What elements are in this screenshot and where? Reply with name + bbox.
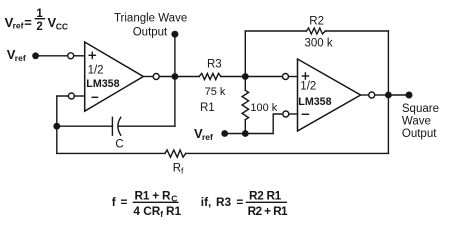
pin circle: U1B non-inverting input — [283, 74, 289, 80]
wire top rail left segment — [245, 30, 306, 32]
wire right feedback vertical — [387, 31, 389, 153]
node: triangle wave output terminal dot — [171, 31, 178, 38]
wire node B down to R1 — [244, 77, 246, 91]
resistor R1 100k (vertical) — [242, 90, 249, 119]
wire up to triangle wave terminal — [174, 34, 176, 76]
pin circle: U1A inverting input — [68, 93, 74, 99]
node: U1B output junction — [385, 92, 392, 99]
label 100 k — [250, 102, 277, 114]
label Square Wave Output — [402, 103, 439, 140]
wire Vref dot to + input circle — [36, 55, 68, 57]
svg-text:2: 2 — [36, 21, 42, 33]
resistor R3 75k — [199, 73, 221, 79]
node: U1A output junction — [172, 73, 179, 80]
wire circle to op-amp — [74, 55, 85, 57]
wire U1A output apex to circle — [143, 76, 153, 78]
node: square wave output terminal dot — [406, 92, 413, 99]
svg-text:R1 + R: R1 + R — [135, 188, 172, 202]
svg-text:LM358: LM358 — [86, 78, 119, 90]
wire to square wave terminal — [388, 94, 409, 96]
svg-text:Output: Output — [133, 27, 168, 39]
svg-text:1/2: 1/2 — [88, 64, 104, 76]
wire Vref dot to junction — [225, 133, 246, 135]
wire from inverting circle to op-amp — [74, 95, 84, 97]
capacitor C — [111, 117, 113, 135]
svg-text:=: = — [121, 195, 128, 209]
svg-text:R1: R1 — [166, 204, 182, 218]
label C — [115, 139, 123, 151]
resistor R2 300k — [306, 28, 325, 34]
fraction bar of 1/2 — [35, 18, 44, 20]
wire circle to U1B — [289, 76, 298, 78]
U1A plus sign — [89, 54, 95, 56]
label R1 — [200, 102, 215, 114]
svg-text:CC: CC — [56, 21, 68, 31]
node B: U1B non-inverting junction — [242, 73, 249, 80]
wire U1B apex to output circle — [361, 94, 369, 96]
fraction bar formula 1 — [133, 201, 178, 203]
svg-text:R3: R3 — [216, 195, 232, 209]
label Vref (left input) — [7, 47, 26, 63]
wire circle to output node — [375, 94, 389, 96]
U1A minus sign — [92, 96, 97, 98]
label Triangle Wave Output — [114, 12, 187, 38]
svg-text:ref: ref — [202, 132, 213, 142]
wire output node to R3 — [175, 76, 199, 78]
wire capacitor right to feedback vertical — [118, 125, 174, 127]
svg-text:C: C — [115, 139, 123, 151]
label Vref (bottom) — [194, 126, 213, 142]
U1B plus sign — [302, 75, 308, 77]
pin circle: U1B inverting input — [283, 111, 289, 117]
svg-text:R: R — [173, 163, 181, 175]
svg-text:f: f — [181, 166, 184, 176]
pin circle: U1B output — [369, 92, 375, 98]
formula if, R3 = (R2 R1)/(R2 + R1) — [201, 188, 288, 218]
svg-text:R3: R3 — [207, 58, 222, 70]
U1B text 1/2 LM358 — [298, 81, 331, 108]
svg-text:Wave: Wave — [402, 116, 431, 128]
node: Vref bottom terminal dot — [221, 130, 228, 137]
wire bottom rail left segment — [57, 152, 165, 154]
node A: capacitor left junction — [53, 123, 60, 130]
svg-text:=: = — [24, 15, 32, 30]
formula f = (R1 + RC)/(4 CRf R1) — [112, 188, 182, 219]
wire node A to capacitor — [57, 125, 113, 127]
svg-text:ref: ref — [13, 21, 24, 31]
fraction bar formula 2 — [246, 201, 286, 203]
svg-text:R1: R1 — [200, 102, 215, 114]
U1A text 1/2 LM358 — [86, 64, 119, 90]
svg-text:if,: if, — [201, 195, 211, 209]
label R2 — [309, 15, 324, 27]
wire node B to + input circle — [245, 76, 282, 78]
label R3 — [207, 58, 222, 70]
wire output circle to node — [159, 76, 175, 78]
op-amp U1B (1/2 LM358) — [298, 59, 361, 131]
wire inverting input loop to capacitor node — [57, 96, 69, 126]
svg-text:=: = — [236, 195, 243, 209]
wire circle to U1B — [289, 113, 298, 115]
svg-text:f: f — [112, 195, 116, 209]
svg-text:Square: Square — [402, 103, 439, 115]
op-amp U1A (1/2 LM358) — [85, 42, 144, 111]
svg-text:R2 + R1: R2 + R1 — [248, 204, 288, 218]
svg-text:75 k: 75 k — [205, 86, 226, 98]
label Vref = 1/2 Vcc — [5, 8, 68, 33]
svg-text:f: f — [160, 209, 163, 219]
wire node B up to top rail — [244, 31, 246, 77]
node: R1/Vref junction — [242, 130, 249, 137]
svg-text:100 k: 100 k — [250, 102, 277, 114]
svg-text:Output: Output — [402, 128, 437, 140]
label 300 k — [305, 38, 333, 50]
wire feedback vertical up to output node — [174, 77, 176, 127]
resistor Rf — [165, 150, 186, 157]
svg-text:R2: R2 — [309, 15, 324, 27]
wire R3 to node B — [221, 76, 245, 78]
pin circle: U1A output — [153, 74, 159, 80]
wire top rail right segment — [325, 30, 388, 32]
label Rf — [173, 163, 184, 176]
wire bottom rail right segment — [186, 152, 389, 154]
wire node A down to bottom rail — [56, 126, 58, 153]
node: Vref input terminal dot — [32, 52, 39, 59]
pin circle: U1A non-inverting input — [68, 53, 74, 59]
U1B minus sign — [302, 113, 308, 115]
svg-text:Triangle Wave: Triangle Wave — [114, 12, 187, 24]
svg-text:LM358: LM358 — [298, 96, 331, 108]
svg-text:R2 R1: R2 R1 — [249, 188, 282, 202]
svg-text:1/2: 1/2 — [300, 81, 316, 93]
wire junction to U1B inverting input — [245, 114, 282, 134]
svg-text:4 CR: 4 CR — [133, 204, 160, 218]
svg-text:300 k: 300 k — [305, 38, 333, 50]
svg-text:ref: ref — [15, 53, 26, 63]
wire R1 bottom to Vref node — [244, 120, 246, 134]
label 75 k — [205, 86, 226, 98]
